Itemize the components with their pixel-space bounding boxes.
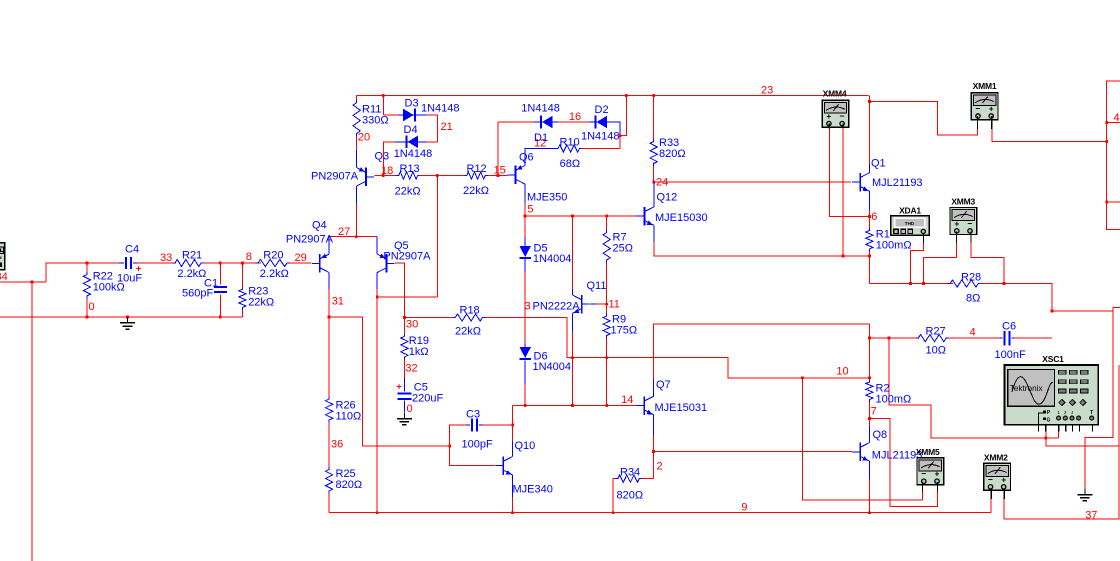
svg-text:33: 33 bbox=[160, 252, 172, 264]
wire node21 vertical to Q5 collector net bbox=[436, 176, 438, 298]
svg-text:0: 0 bbox=[407, 403, 413, 415]
wire XSC1 stubs bbox=[1038, 425, 1040, 432]
wire R1 bottom to bus283 bbox=[868, 252, 870, 284]
wire R23 bottom lead bbox=[241, 310, 243, 317]
wire XMM1 stubs bbox=[977, 116, 979, 129]
resistor R22 bbox=[83, 272, 90, 298]
transistor Q5 bbox=[386, 254, 388, 272]
svg-text:PN2907A: PN2907A bbox=[383, 251, 431, 263]
svg-text:2.2kΩ: 2.2kΩ bbox=[260, 268, 289, 280]
junction Q7 emitter net2 bbox=[652, 450, 655, 453]
svg-text:1N4148: 1N4148 bbox=[394, 148, 433, 160]
svg-text:14: 14 bbox=[621, 394, 633, 406]
svg-text:MJE15031: MJE15031 bbox=[655, 402, 708, 414]
svg-text:R27: R27 bbox=[926, 326, 946, 338]
svg-text:PN2907A: PN2907A bbox=[286, 234, 334, 246]
lead D3 bbox=[399, 114, 427, 116]
wire XMM3 left wire bbox=[924, 243, 957, 284]
junction node 11 bbox=[605, 303, 608, 306]
wire Q4 emitter up bbox=[328, 237, 330, 254]
svg-text:8Ω: 8Ω bbox=[966, 293, 980, 305]
svg-text:+: + bbox=[954, 218, 959, 228]
wire Q1 collector lead bbox=[868, 164, 870, 173]
svg-text:R18: R18 bbox=[460, 305, 480, 317]
svg-text:T: T bbox=[1090, 410, 1093, 416]
junction busR1 b bbox=[922, 282, 925, 285]
svg-text:29: 29 bbox=[295, 252, 307, 264]
svg-text:100mΩ: 100mΩ bbox=[876, 394, 912, 406]
wire R1 bus net bbox=[869, 283, 953, 285]
svg-text:22kΩ: 22kΩ bbox=[395, 186, 421, 198]
svg-text:22kΩ: 22kΩ bbox=[455, 326, 481, 338]
wire Q6 collector down bbox=[524, 184, 526, 203]
wire D3 right to node 21 bbox=[427, 115, 438, 142]
svg-text:R10: R10 bbox=[560, 137, 580, 149]
wire R13 to R12 bbox=[420, 175, 464, 177]
svg-text:820Ω: 820Ω bbox=[336, 479, 363, 491]
svg-text:100pF: 100pF bbox=[462, 439, 493, 451]
junction net5 R7 bbox=[605, 215, 608, 218]
wire XMM4 left down bbox=[829, 129, 869, 217]
wire Q1 emitter down bbox=[868, 210, 870, 229]
svg-text:+: + bbox=[935, 469, 940, 479]
svg-text:37: 37 bbox=[1085, 510, 1097, 522]
wire R23 top lead bbox=[241, 263, 243, 287]
instrument XSC1 bbox=[1005, 365, 1099, 425]
diode D1 bbox=[542, 116, 553, 129]
svg-text:10Ω: 10Ω bbox=[926, 345, 946, 357]
svg-text:R20: R20 bbox=[263, 250, 283, 262]
svg-text:C3: C3 bbox=[466, 409, 480, 421]
svg-text:Tektronix: Tektronix bbox=[1010, 384, 1043, 393]
junction Q8 emitter bus bbox=[868, 511, 871, 514]
wire D4 cathode to Q3 base bbox=[383, 142, 394, 176]
svg-text:22kΩ: 22kΩ bbox=[463, 185, 489, 197]
junction node 30 bbox=[403, 316, 406, 319]
svg-text:Q3: Q3 bbox=[375, 151, 390, 163]
svg-text:23: 23 bbox=[761, 85, 773, 97]
svg-text:1N4148: 1N4148 bbox=[521, 103, 560, 115]
wire R25 bottom to bus bbox=[328, 494, 330, 513]
svg-text:2: 2 bbox=[657, 461, 663, 473]
resistor R27 bbox=[916, 335, 949, 342]
wire R18 right to corner bbox=[485, 318, 870, 378]
svg-text:Q1: Q1 bbox=[871, 158, 886, 170]
junction R27 scope tap bbox=[888, 337, 891, 340]
wire scope G stub bbox=[1045, 431, 1047, 438]
instrument XMM1 bbox=[971, 93, 998, 120]
wire right edge column bbox=[1107, 81, 1120, 229]
wire Q3 collector drop bbox=[356, 186, 358, 203]
svg-text:R28: R28 bbox=[961, 272, 981, 284]
wire D2 anode down bbox=[603, 122, 621, 149]
junction node 6 bbox=[868, 215, 871, 218]
resistor R9 bbox=[603, 314, 610, 339]
wire D1 to D2 net 16 bbox=[548, 121, 590, 123]
lead C3 left bbox=[466, 424, 470, 426]
wire top supply bus net 23 bbox=[357, 94, 869, 96]
svg-text:10: 10 bbox=[836, 366, 848, 378]
resistor R18 bbox=[453, 314, 485, 321]
junction top bus D3 bbox=[382, 94, 385, 97]
transistor Q11 bbox=[581, 295, 583, 314]
junction top bus R33 bbox=[652, 94, 655, 97]
resistor R10 bbox=[556, 145, 583, 152]
svg-text:−: − bbox=[976, 104, 981, 114]
svg-text:110Ω: 110Ω bbox=[336, 411, 362, 423]
svg-text:R21: R21 bbox=[182, 250, 202, 262]
wire input jog up bbox=[46, 263, 119, 282]
svg-text:THD: THD bbox=[905, 221, 915, 226]
svg-text:2.2kΩ: 2.2kΩ bbox=[177, 268, 206, 280]
wire R11 top lead bbox=[356, 95, 358, 100]
wire Q8 collector lead bbox=[868, 426, 870, 443]
junction node 24 bbox=[652, 181, 655, 184]
resistor R25 bbox=[326, 467, 333, 494]
lead D2 bbox=[589, 121, 612, 123]
wire R12 right to Q6 base node 15 bbox=[488, 175, 508, 177]
junction C3right bbox=[511, 424, 514, 427]
svg-text:100nF: 100nF bbox=[995, 349, 1026, 361]
wire xmm5 left stub bbox=[921, 492, 923, 500]
wire Q11 base to node 11 bbox=[590, 303, 596, 305]
resistor R1 bbox=[866, 228, 873, 252]
instrument XMM4 bbox=[822, 100, 849, 127]
diode D5 bbox=[519, 246, 531, 257]
svg-text:30: 30 bbox=[406, 319, 418, 331]
wire net14 bus bbox=[513, 405, 637, 407]
wire node30 to R18 bbox=[404, 317, 452, 319]
wire XMM3 right wire bbox=[971, 243, 1004, 284]
svg-text:G: G bbox=[1047, 418, 1051, 424]
transistor Q12 bbox=[644, 207, 646, 226]
wire net 24 Q12 collector to Q1 base bbox=[654, 181, 851, 183]
svg-text:C6: C6 bbox=[1002, 321, 1016, 333]
wire R27 left bbox=[869, 337, 918, 339]
wire D1 cathode drop to node 15 bbox=[497, 122, 499, 176]
wire XDA1 stub bbox=[923, 234, 925, 243]
wire Q4 collector down bbox=[328, 273, 330, 290]
svg-text:Q8: Q8 bbox=[873, 429, 888, 441]
wire Q5 base corner to node 30 bbox=[395, 263, 405, 334]
instrument left edge bbox=[0, 243, 5, 270]
wire XDA1 wire bbox=[911, 243, 924, 284]
wire Q5 collector drop bbox=[376, 273, 378, 290]
junction Q11emitter y358 bbox=[571, 356, 574, 359]
resistor R28 bbox=[948, 280, 981, 287]
junction node 31 bbox=[328, 316, 331, 319]
wire D2 branch drop bbox=[620, 95, 626, 135]
svg-text:PN2222A: PN2222A bbox=[533, 301, 581, 313]
instrument XMM2 bbox=[984, 463, 1011, 490]
svg-text:R34: R34 bbox=[620, 467, 640, 479]
wire C3 left net bbox=[450, 425, 495, 466]
svg-text:−: − bbox=[840, 111, 845, 121]
wire D2 node to R10 bbox=[619, 136, 621, 149]
wire XMM4 right down bbox=[842, 129, 844, 256]
wire net 5 bus to Q12 base bbox=[525, 215, 637, 217]
wire right edge lower column bbox=[1118, 365, 1120, 519]
junction R9 net y358 bbox=[605, 356, 608, 359]
svg-text:175Ω: 175Ω bbox=[611, 325, 638, 337]
resistor R12 bbox=[464, 172, 488, 179]
junction R27 node bbox=[868, 337, 871, 340]
junction R1 mid bbox=[868, 255, 871, 258]
wire XMM5 stubs bbox=[921, 482, 923, 492]
wire D3 anode drop bbox=[382, 95, 384, 115]
svg-text:220uF: 220uF bbox=[412, 393, 443, 405]
svg-text:330Ω: 330Ω bbox=[362, 115, 389, 127]
svg-text:Q6: Q6 bbox=[519, 152, 534, 164]
svg-text:R13: R13 bbox=[400, 163, 420, 175]
svg-text:21: 21 bbox=[441, 121, 453, 133]
wire Q10 collector riser bbox=[512, 441, 514, 456]
svg-text:XDA1: XDA1 bbox=[899, 206, 921, 216]
wire R10 left to Q6 emitter bbox=[525, 149, 559, 166]
svg-text:22kΩ: 22kΩ bbox=[248, 297, 274, 309]
svg-text:68Ω: 68Ω bbox=[560, 158, 580, 170]
wire D5 to D6 bbox=[524, 259, 526, 272]
wire Q3 base to R13 bbox=[375, 175, 397, 177]
diode D6 bbox=[519, 347, 531, 358]
wire bottom bus bbox=[329, 512, 991, 514]
svg-text:40: 40 bbox=[1114, 112, 1120, 124]
junction busR1 a bbox=[909, 282, 912, 285]
wire R11 to Q3 emitter bbox=[356, 136, 358, 150]
wire input drop column bbox=[31, 282, 33, 561]
wire scope tap jog bbox=[889, 338, 1059, 438]
svg-text:+: + bbox=[826, 111, 831, 121]
wire R33 top lead bbox=[653, 95, 655, 139]
junction node 27 bbox=[355, 235, 358, 238]
transistor Q7 bbox=[643, 396, 645, 415]
transistor Q10 bbox=[502, 456, 504, 475]
wire R7 top lead bbox=[606, 216, 608, 233]
wire ground bus input bbox=[0, 316, 242, 318]
instrument XMM3 bbox=[950, 208, 977, 235]
svg-text:100kΩ: 100kΩ bbox=[93, 282, 125, 294]
resistor R26 bbox=[326, 397, 333, 423]
junction R13 R12 node bbox=[436, 174, 439, 177]
resistor R19 bbox=[401, 334, 408, 360]
junction right in1 bbox=[1105, 121, 1108, 124]
junction Q3 base node 18 bbox=[382, 174, 385, 177]
diode D4 bbox=[408, 136, 419, 149]
svg-text:24: 24 bbox=[656, 177, 668, 189]
svg-text:−: − bbox=[968, 218, 973, 228]
wire Q7 emitter down bbox=[653, 415, 655, 436]
wire XMM4 stubs bbox=[828, 124, 830, 129]
junction net5 Q11 collector bbox=[571, 215, 574, 218]
resistor R23 bbox=[239, 287, 246, 310]
svg-text:Q10: Q10 bbox=[515, 440, 536, 452]
wire R20 to Q4 base bbox=[290, 262, 312, 264]
wire R2 bottom bbox=[868, 402, 870, 426]
capacitor C6 bbox=[1003, 331, 1005, 346]
svg-text:C4: C4 bbox=[125, 244, 139, 256]
wire R19 bottom to C5 bbox=[403, 357, 405, 378]
wire node 27 emitter tie bbox=[329, 236, 377, 238]
ground below C5 bbox=[403, 413, 405, 419]
junction D6 bottom bbox=[524, 404, 527, 407]
junction Q5coll bus bbox=[376, 511, 379, 514]
wire R28 right net bbox=[981, 284, 1052, 311]
lead C4 left bbox=[119, 262, 124, 264]
junction node7 branch bbox=[868, 417, 871, 420]
svg-text:Q12: Q12 bbox=[657, 192, 678, 204]
junction right col xmm1 bbox=[1105, 140, 1108, 143]
wire D3 left lead bbox=[383, 114, 398, 116]
resistor R34 bbox=[615, 475, 641, 482]
svg-text:Q7: Q7 bbox=[656, 379, 671, 391]
wire R9 bottom bbox=[606, 335, 608, 406]
wire Q7 emitter to R34 bbox=[642, 478, 654, 480]
junction net10 x802 bbox=[801, 376, 804, 379]
svg-text:−: − bbox=[921, 469, 926, 479]
resistor R7 bbox=[603, 230, 610, 263]
diode D2 bbox=[597, 116, 608, 129]
wire XMM1 jog bbox=[869, 101, 977, 134]
wire Q1 emitter lead bbox=[868, 191, 870, 209]
svg-text:+: + bbox=[989, 104, 994, 114]
resistor R11 bbox=[353, 100, 360, 136]
wire Q12 emitter red bbox=[654, 242, 870, 256]
svg-text:XMM1: XMM1 bbox=[973, 81, 997, 91]
junction gnd sym bbox=[126, 316, 129, 319]
wire R22 bottom bbox=[86, 298, 88, 317]
wire C1 top lead bbox=[219, 263, 221, 285]
wire C4 right net 33 bbox=[137, 262, 176, 264]
svg-text:D4: D4 bbox=[404, 124, 418, 136]
diode D3 bbox=[403, 109, 414, 122]
svg-text:D1: D1 bbox=[534, 132, 548, 144]
wire R21 right to node8 bbox=[204, 262, 262, 264]
svg-text:31: 31 bbox=[332, 296, 344, 308]
wire XMM3 stubs bbox=[956, 232, 958, 243]
wire Q12 emitter drop bbox=[653, 225, 655, 242]
svg-text:34: 34 bbox=[0, 271, 8, 283]
junction net 5 bbox=[524, 215, 527, 218]
junction right in2 bbox=[1105, 201, 1108, 204]
svg-text:820Ω: 820Ω bbox=[659, 148, 686, 160]
svg-text:XMM4: XMM4 bbox=[823, 89, 847, 99]
wire C5 minus to ground bbox=[403, 401, 405, 413]
wire out jog right edge bbox=[1052, 310, 1113, 312]
junction Q1 coll branch bbox=[868, 100, 871, 103]
wire net21 link bbox=[377, 296, 437, 298]
svg-text:27: 27 bbox=[338, 226, 350, 238]
svg-text:25Ω: 25Ω bbox=[613, 243, 633, 255]
wire R27 right net 4 bbox=[946, 337, 1000, 339]
wire Q8 emitter to bus bbox=[868, 479, 870, 513]
wire Q1 collector riser bbox=[868, 95, 870, 164]
wire R22 top lead bbox=[86, 263, 88, 273]
lead C6 right bbox=[1012, 337, 1015, 339]
svg-text:36: 36 bbox=[331, 439, 343, 451]
capacitor C3 bbox=[471, 419, 473, 432]
junction C1 top bbox=[219, 262, 222, 265]
resistor R2 bbox=[866, 380, 873, 403]
wire D1 left lead bbox=[498, 121, 534, 123]
wire XMM2 right stub bbox=[1003, 499, 1005, 519]
wire right edge in2 bbox=[1107, 201, 1120, 203]
lead D4 bbox=[395, 141, 427, 143]
wire R34 left to bus bbox=[613, 479, 615, 513]
resistor R21 bbox=[173, 259, 204, 266]
svg-text:32: 32 bbox=[405, 363, 417, 375]
resistor R20 bbox=[256, 259, 290, 266]
junction R28 xmm3r bbox=[1003, 282, 1006, 285]
transistor Q8 bbox=[859, 443, 861, 462]
svg-text:+: + bbox=[1001, 474, 1006, 484]
svg-text:J: J bbox=[1071, 410, 1073, 415]
transistor Q6 bbox=[515, 166, 517, 185]
wire Q12 collector lead bbox=[653, 182, 655, 207]
lead C4 right bbox=[133, 262, 137, 264]
junction Q11emitter y405 bbox=[571, 404, 574, 407]
wire Q5 emitter up bbox=[376, 237, 378, 254]
junction scope G drop bbox=[1044, 437, 1047, 440]
svg-text:1N4148: 1N4148 bbox=[421, 103, 460, 115]
wire C3 right net bbox=[483, 424, 513, 426]
wire D4 anode lead bbox=[427, 141, 438, 143]
svg-text:820Ω: 820Ω bbox=[617, 490, 644, 502]
svg-text:1N4148: 1N4148 bbox=[581, 131, 620, 143]
wire scope right L bbox=[1085, 308, 1113, 489]
transistor Q1 bbox=[859, 173, 861, 192]
svg-text:XMM3: XMM3 bbox=[951, 197, 975, 207]
transistor Q4 bbox=[319, 254, 321, 272]
junction branch C3node bbox=[448, 445, 451, 448]
svg-text:−: − bbox=[988, 474, 993, 484]
junction net10 R2top bbox=[868, 376, 871, 379]
svg-text:8: 8 bbox=[246, 251, 252, 263]
svg-text:560pF: 560pF bbox=[182, 288, 213, 300]
wire Q11 emitter drop bbox=[571, 314, 573, 332]
wire D5D6 column top bbox=[524, 237, 526, 246]
svg-text:100mΩ: 100mΩ bbox=[876, 240, 912, 252]
wire Q8 emitter lead bbox=[868, 461, 870, 479]
svg-text:0: 0 bbox=[89, 301, 95, 313]
lead C3 right bbox=[479, 424, 483, 426]
capacitor C5 bbox=[398, 392, 412, 394]
junction node 8 bbox=[241, 262, 244, 265]
svg-text:1N4004: 1N4004 bbox=[533, 361, 572, 373]
svg-text:7: 7 bbox=[871, 406, 877, 418]
svg-text:MJL21193: MJL21193 bbox=[872, 450, 923, 462]
svg-text:MJE15030: MJE15030 bbox=[655, 212, 708, 224]
junction D2 R10 node bbox=[619, 134, 622, 137]
svg-text:9: 9 bbox=[741, 502, 747, 514]
wire right edge in1 bbox=[1107, 122, 1120, 124]
svg-text:Q4: Q4 bbox=[312, 220, 327, 232]
svg-text:4: 4 bbox=[970, 327, 976, 339]
wire C6 right bbox=[1015, 337, 1053, 339]
wire R2 top net bbox=[868, 324, 870, 380]
svg-text:1N4004: 1N4004 bbox=[533, 253, 572, 265]
svg-text:20: 20 bbox=[358, 132, 370, 144]
ground right bbox=[1084, 489, 1086, 495]
wire R33 bottom to node 24 bbox=[653, 163, 655, 182]
svg-text:MJE350: MJE350 bbox=[527, 192, 567, 204]
lead D1 bbox=[534, 121, 558, 123]
wire xmm2 left stub bbox=[990, 499, 992, 513]
svg-text:11: 11 bbox=[609, 299, 620, 311]
wire D6 bottom bbox=[524, 361, 526, 385]
wire Q7 collector riser bbox=[653, 379, 655, 397]
svg-text:PN2907A: PN2907A bbox=[311, 171, 359, 183]
lead C6 left bbox=[1000, 337, 1003, 339]
